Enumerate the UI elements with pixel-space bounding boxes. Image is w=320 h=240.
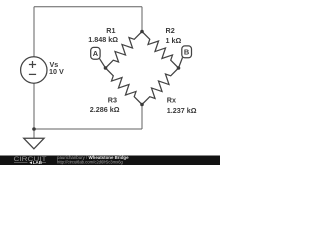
- svg-text:◄LAB: ◄LAB: [29, 160, 42, 165]
- wire left vertical upper: [33, 7, 35, 57]
- svg-text:10 V: 10 V: [49, 67, 64, 76]
- logo rule: [14, 161, 46, 163]
- svg-text:http://circuitlab.com/c2d6fr5c: http://circuitlab.com/c2d6fr5c3mx6g: [57, 160, 124, 165]
- node A flag box: [91, 47, 100, 59]
- svg-text:R2: R2: [166, 26, 175, 35]
- junction dot bridge bottom: [140, 103, 144, 107]
- wire left vertical lower: [33, 83, 35, 129]
- voltage source minus sign: [29, 73, 36, 75]
- footer banner: [0, 156, 220, 166]
- wire bridge bottom vertical: [141, 105, 143, 130]
- wire ground stub: [33, 129, 35, 138]
- wire top horizontal: [34, 6, 142, 8]
- svg-text:A: A: [93, 49, 99, 58]
- node A flag connector: [100, 59, 106, 68]
- resistor Rx: [142, 68, 179, 105]
- svg-text:R1: R1: [106, 26, 115, 35]
- junction dot node B: [177, 66, 181, 70]
- wire bottom horizontal: [34, 128, 142, 130]
- wire right vertical to bridge top: [141, 7, 143, 32]
- svg-text:2.286 kΩ: 2.286 kΩ: [90, 105, 120, 114]
- junction dot bridge top: [140, 30, 144, 34]
- svg-text:B: B: [184, 48, 189, 57]
- node B flag connector: [179, 58, 183, 69]
- resistor R1: [106, 32, 143, 69]
- junction dot ground: [32, 127, 36, 131]
- resistor R3: [106, 68, 143, 105]
- svg-text:1.237 kΩ: 1.237 kΩ: [167, 106, 197, 115]
- svg-text:Rx: Rx: [167, 96, 176, 105]
- junction dot node A: [104, 66, 108, 70]
- svg-text:1.848 kΩ: 1.848 kΩ: [88, 35, 118, 44]
- voltage source V1 circle: [21, 57, 47, 83]
- node B flag box: [182, 46, 192, 58]
- ground symbol: [24, 138, 44, 149]
- svg-text:R3: R3: [108, 95, 117, 104]
- resistor R2: [142, 32, 179, 69]
- svg-text:1 kΩ: 1 kΩ: [166, 36, 182, 45]
- voltage source plus sign: [29, 61, 36, 68]
